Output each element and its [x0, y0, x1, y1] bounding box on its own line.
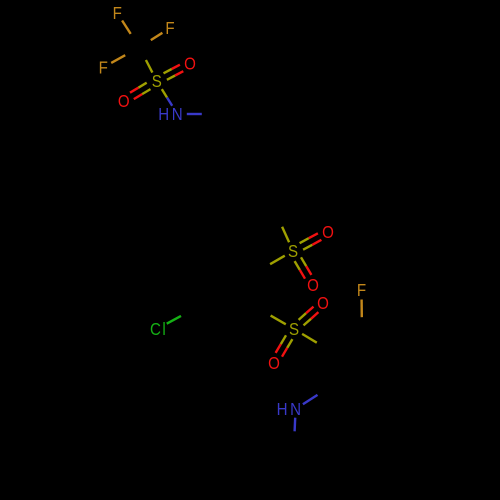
svg-text:C: C [150, 319, 161, 340]
bond F4-CF [360, 300, 363, 318]
atom Ob1 (O) [317, 293, 329, 314]
atom F1 (F) [113, 3, 122, 24]
bond Sb-V2 [271, 316, 286, 325]
svg-text:O: O [322, 222, 334, 243]
atom Oa2 (O) [307, 275, 319, 296]
atom S1 (S) [152, 71, 162, 92]
svg-text:S: S [289, 319, 299, 340]
svg-text:F: F [113, 3, 122, 24]
double bond S1-O1 [164, 65, 184, 80]
atom Sb (S) [289, 319, 299, 340]
atom N1 (HN) [158, 104, 182, 125]
svg-text:N: N [290, 399, 301, 420]
bond S1-N1 [162, 89, 172, 106]
svg-text:F: F [99, 57, 108, 78]
atom F4 (F) [357, 280, 366, 301]
bond C1-S1 [146, 60, 153, 73]
atom Ob2 (O) [268, 353, 280, 374]
atom N2 (HN) [277, 399, 301, 420]
svg-text:l: l [162, 319, 165, 340]
bond N2-CM [293, 418, 296, 432]
svg-text:N: N [172, 104, 183, 125]
bond Sa-V1 [270, 256, 285, 265]
double bond S1-O2 [130, 83, 151, 99]
atom F2 (F) [165, 18, 174, 39]
svg-text:H: H [277, 399, 288, 420]
bond F2-C1 [151, 33, 163, 40]
svg-text:S: S [152, 71, 162, 92]
svg-text:F: F [165, 18, 174, 39]
double bond Sa-Oa2 [295, 257, 312, 278]
atom O2 (O) [118, 91, 130, 112]
bond F1-C1 [122, 21, 131, 34]
atom O1 (O) [184, 53, 196, 74]
double bond Sb-Ob1 [299, 307, 319, 326]
atom Sa (S) [288, 241, 298, 262]
bond Cl-V4 [167, 316, 181, 324]
svg-text:O: O [118, 91, 130, 112]
bond Sa-Ca [282, 227, 289, 243]
double bond Sa-Oa1 [300, 233, 322, 249]
bond N1-C2 [187, 113, 202, 115]
bond N2-CN [303, 395, 318, 404]
atom Cl (Cl) [150, 319, 166, 340]
bond Sb-Cb [302, 334, 317, 343]
bond F3-C1 [111, 55, 125, 63]
double bond Sb-Ob2 [276, 335, 293, 356]
svg-text:H: H [158, 104, 169, 125]
svg-text:O: O [184, 53, 196, 74]
svg-text:F: F [357, 280, 366, 301]
svg-text:O: O [268, 353, 280, 374]
atom F3 (F) [99, 57, 108, 78]
atom Oa1 (O) [322, 222, 334, 243]
svg-text:S: S [288, 241, 298, 262]
svg-text:O: O [317, 293, 329, 314]
